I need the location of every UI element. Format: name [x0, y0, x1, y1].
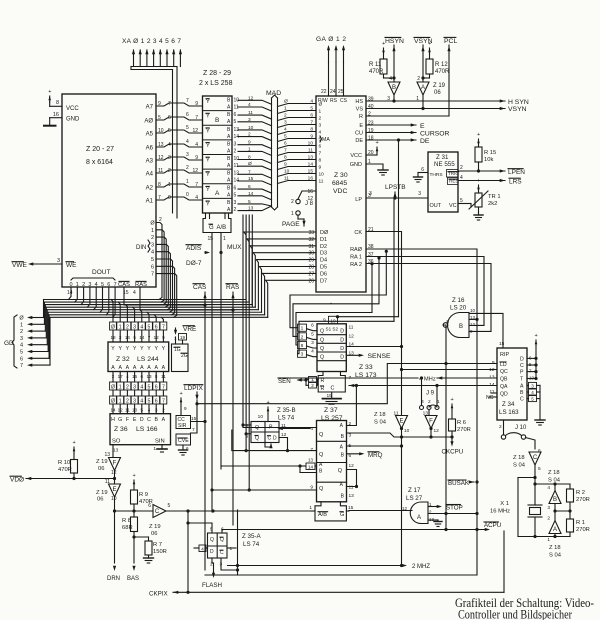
svg-text:Q: Q: [319, 452, 324, 458]
Z33 left input pins: [298, 324, 307, 331]
svg-text:06: 06: [151, 531, 157, 537]
svg-text:5: 5: [141, 408, 144, 413]
svg-text:12: 12: [349, 333, 355, 339]
svg-text:E: E: [112, 487, 116, 493]
svg-text:C: C: [520, 397, 524, 403]
svg-text:D: D: [340, 337, 344, 343]
vertical clock feed wire: [237, 510, 239, 575]
svg-text:RAØ: RAØ: [350, 247, 363, 253]
svg-text:Q: Q: [210, 537, 214, 543]
svg-text:16: 16: [308, 176, 314, 182]
svg-text:12: 12: [192, 128, 198, 134]
svg-text:VWE: VWE: [12, 262, 27, 269]
svg-text:A: A: [421, 85, 425, 91]
wire Z37 Q3 to A4 loop: [347, 470, 357, 487]
svg-text:B: B: [459, 324, 463, 330]
svg-text:BAS: BAS: [127, 576, 139, 582]
svg-text:A: A: [162, 417, 166, 423]
svg-text:D3: D3: [320, 251, 327, 257]
svg-text:2: 2: [168, 168, 171, 174]
svg-text:1G: 1G: [174, 347, 181, 353]
XA bus vertical drop lines: [176, 67, 178, 219]
svg-text:+: +: [451, 397, 454, 403]
svg-text:A4: A4: [146, 172, 154, 178]
svg-text:Q: Q: [319, 432, 324, 438]
svg-text:6: 6: [310, 113, 313, 119]
svg-text:SIR: SIR: [178, 423, 187, 429]
ground symbol: [44, 125, 56, 127]
svg-text:G: G: [209, 225, 214, 231]
svg-text:25: 25: [338, 89, 344, 95]
svg-text:A: A: [147, 365, 151, 371]
svg-text:QD: QD: [500, 392, 508, 398]
svg-text:3: 3: [248, 117, 251, 123]
svg-text:6: 6: [186, 446, 189, 451]
svg-text:10: 10: [319, 172, 325, 178]
svg-text:39: 39: [368, 97, 374, 103]
svg-text:8: 8: [284, 155, 287, 161]
svg-text:3: 3: [311, 340, 314, 346]
wire VWE to WE: [33, 263, 62, 265]
svg-text:+: +: [73, 440, 76, 446]
svg-text:8: 8: [446, 319, 449, 325]
svg-text:3: 3: [547, 505, 550, 511]
wires LS258 B/A inputs to MAD bus: [238, 100, 272, 104]
signal DRN arrow: [113, 566, 116, 571]
svg-text:5: 5: [248, 199, 251, 205]
svg-text:Z 35-B: Z 35-B: [277, 407, 296, 414]
LS244 input pin boxes: [110, 322, 117, 330]
svg-text:A2: A2: [146, 186, 154, 192]
svg-text:11: 11: [284, 176, 289, 182]
svg-text:D: D: [340, 329, 344, 335]
svg-text:28: 28: [308, 265, 314, 271]
Z35-B input wires: [243, 424, 251, 426]
svg-text:Z 18: Z 18: [549, 545, 561, 551]
svg-text:5: 5: [284, 134, 287, 140]
svg-text:+: +: [48, 89, 51, 95]
svg-text:1: 1: [248, 146, 251, 152]
svg-text:CVE: CVE: [178, 438, 189, 444]
wire LPSTB to Z33 D4: [298, 321, 395, 353]
LS163 supply arrow: [535, 340, 538, 344]
data bus left staircase to GD arrows: [43, 300, 45, 318]
svg-text:9: 9: [323, 318, 326, 324]
svg-text:12: 12: [434, 428, 440, 434]
svg-text:4: 4: [186, 139, 189, 145]
wire QD: [491, 392, 497, 394]
svg-text:12: 12: [111, 470, 117, 476]
svg-text:HSYN: HSYN: [385, 38, 404, 45]
svg-text:0: 0: [168, 195, 171, 201]
svg-text:6: 6: [311, 323, 314, 329]
IC Z33 LS173 register: [317, 324, 346, 372]
svg-text:2: 2: [20, 329, 23, 335]
CURSOR output wire: [366, 132, 416, 134]
svg-text:F: F: [113, 461, 117, 467]
Z35-B clock wire pin 11: [279, 428, 310, 430]
svg-text:1: 1: [319, 109, 322, 115]
svg-text:Y: Y: [133, 346, 137, 352]
svg-text:A: A: [154, 365, 158, 371]
svg-text:4: 4: [310, 426, 313, 432]
svg-text:Ø: Ø: [19, 316, 24, 322]
svg-text:5: 5: [234, 192, 237, 198]
svg-text:270R: 270R: [576, 497, 590, 503]
signal BAS arrow: [132, 566, 135, 571]
svg-text:FLASH: FLASH: [202, 582, 222, 589]
svg-text:4: 4: [248, 102, 251, 108]
svg-text:NC: NC: [486, 395, 494, 401]
brace over DOUT pins: [71, 278, 115, 280]
LS258 G/AB select box: [203, 213, 231, 233]
Z30 GND ground wire: [366, 164, 383, 170]
svg-text:H: H: [111, 417, 115, 423]
svg-text:LS 244: LS 244: [137, 356, 159, 363]
svg-text:A: A: [118, 365, 122, 371]
LS20 input wires from RA lines: [469, 318, 477, 320]
svg-text:LS 74: LS 74: [243, 541, 260, 548]
svg-text:7: 7: [186, 98, 189, 104]
svg-text:32: 32: [308, 237, 314, 243]
svg-text:4: 4: [310, 99, 313, 105]
svg-text:WE: WE: [66, 262, 77, 269]
svg-text:CURSOR: CURSOR: [420, 131, 450, 138]
svg-text:Y: Y: [206, 99, 210, 105]
svg-text:+: +: [133, 473, 136, 479]
E inverter output down to 2MHZ line: [401, 437, 403, 566]
svg-text:Q: Q: [320, 346, 324, 352]
VSYN output wire: [366, 108, 505, 110]
svg-text:Y: Y: [118, 346, 122, 352]
svg-text:LD: LD: [500, 362, 507, 368]
GD bus arrows: [32, 317, 44, 319]
svg-text:Y: Y: [154, 346, 158, 352]
resistor R8 68R: [133, 511, 135, 517]
svg-text:DØ: DØ: [320, 230, 329, 236]
wire DE down to Z33 enable: [398, 140, 400, 317]
svg-text:1: 1: [291, 211, 294, 217]
svg-text:DRN: DRN: [107, 576, 120, 582]
Z35-B D wire pin 12 to SIN line: [279, 438, 288, 451]
svg-text:A: A: [417, 515, 421, 521]
net label SEN: [304, 378, 307, 381]
svg-text:8: 8: [301, 343, 304, 349]
svg-text:VDC: VDC: [333, 188, 347, 195]
svg-text:Q: Q: [320, 337, 324, 343]
CAS vertical line: [204, 292, 206, 570]
svg-text:10: 10: [248, 125, 254, 131]
svg-text:26: 26: [308, 278, 314, 284]
svg-text:9: 9: [319, 165, 322, 171]
svg-text:D1: D1: [320, 237, 327, 243]
svg-text:4: 4: [95, 282, 98, 288]
svg-text:6: 6: [234, 112, 237, 118]
svg-text:3: 3: [234, 141, 237, 147]
svg-text:Ø: Ø: [248, 161, 252, 167]
svg-text:R 9: R 9: [139, 492, 148, 498]
svg-text:1: 1: [76, 282, 79, 288]
svg-text:14: 14: [67, 290, 73, 296]
vertical wire from dot line down: [187, 511, 189, 592]
svg-text:R 7: R 7: [153, 542, 162, 548]
svg-text:24: 24: [330, 89, 336, 95]
svg-text:D4: D4: [320, 258, 327, 264]
svg-text:12: 12: [248, 95, 254, 101]
svg-text:C: C: [268, 436, 272, 442]
svg-text:7: 7: [192, 427, 195, 433]
svg-text:Controller und Bildspeicher: Controller und Bildspeicher: [458, 608, 573, 620]
svg-text:VDØ: VDØ: [10, 477, 24, 484]
svg-text:Z 19: Z 19: [149, 524, 161, 530]
resistor R1 270R: [569, 511, 571, 519]
svg-text:D5: D5: [320, 265, 327, 271]
svg-text:A1: A1: [146, 199, 154, 205]
wires Z37 Q outputs to address mux verticals: [243, 427, 317, 429]
svg-text:3: 3: [168, 155, 171, 161]
svg-text:Y: Y: [126, 346, 130, 352]
net label VD0 wire: [26, 478, 115, 480]
svg-text:3: 3: [369, 191, 372, 197]
svg-text:4: 4: [311, 349, 314, 355]
data bus right risers to Z30 D pins: [244, 232, 246, 300]
svg-text:Z 17: Z 17: [408, 487, 421, 494]
svg-text:VCC: VCC: [66, 106, 79, 112]
resistor R10 470R: [73, 447, 76, 451]
LS20 output wire: [443, 325, 446, 530]
data bus: DIN bends from RAM: [156, 223, 162, 300]
svg-text:A/B: A/B: [217, 225, 227, 231]
svg-text:CKCPU: CKCPU: [442, 449, 464, 456]
svg-text:68R: 68R: [122, 525, 133, 531]
data bus horizontal bundle: [44, 299, 247, 301]
svg-text:P: P: [520, 370, 524, 376]
svg-text:E: E: [399, 419, 403, 425]
svg-text:2: 2: [368, 112, 371, 118]
svg-text:GND: GND: [66, 117, 80, 123]
svg-text:1: 1: [153, 446, 156, 452]
svg-text:12: 12: [154, 335, 160, 340]
svg-text:NE 555: NE 555: [434, 161, 455, 168]
resistor R11 470R: [382, 48, 385, 52]
svg-text:D: D: [140, 417, 144, 423]
long wire lower: [205, 574, 477, 576]
svg-text:3: 3: [155, 408, 158, 413]
svg-text:Q: Q: [220, 537, 224, 543]
svg-text:5: 5: [538, 466, 541, 472]
svg-text:3: 3: [57, 258, 60, 264]
svg-text:Q: Q: [255, 436, 259, 442]
XA bus horizontal lines: [131, 66, 177, 68]
svg-text:R: R: [321, 378, 325, 384]
svg-text:4: 4: [133, 290, 136, 296]
svg-text:Q: Q: [319, 486, 324, 492]
svg-text:9: 9: [195, 101, 198, 107]
Z35-A wires: [194, 547, 199, 549]
svg-text:THRS: THRS: [430, 172, 443, 178]
svg-text:5: 5: [311, 331, 314, 337]
svg-text:15: 15: [499, 341, 505, 347]
Z17 pin2 wire to BUSAK line: [428, 513, 477, 515]
svg-text:7: 7: [195, 115, 198, 121]
svg-text:29: 29: [308, 258, 314, 264]
svg-text:2k2: 2k2: [488, 201, 497, 207]
wire RAM RAS pin to RAS line: [140, 288, 233, 310]
svg-text:QC: QC: [500, 369, 508, 375]
resistor R15 10k: [477, 139, 480, 143]
svg-text:3: 3: [151, 242, 154, 248]
STOP arrow and label: [428, 506, 440, 508]
svg-text:270R: 270R: [576, 527, 590, 533]
svg-text:Z 18: Z 18: [374, 412, 386, 418]
signal FLASH: [211, 558, 213, 563]
svg-text:Z 16: Z 16: [452, 297, 465, 304]
IC Z31 NE555 timer: [428, 152, 458, 212]
svg-text:16: 16: [53, 112, 59, 118]
svg-text:5: 5: [234, 119, 237, 125]
svg-text:3: 3: [119, 335, 122, 340]
svg-text:+: +: [477, 178, 480, 184]
svg-text:1: 1: [168, 182, 171, 188]
svg-text:Z 34: Z 34: [502, 401, 515, 408]
svg-text:7: 7: [284, 148, 287, 154]
Z33 R pins boxed: [309, 377, 317, 383]
svg-text:2: 2: [301, 334, 304, 340]
svg-text:CS: CS: [340, 98, 348, 104]
svg-text:12: 12: [118, 408, 124, 413]
svg-text:16 MHz: 16 MHz: [490, 509, 510, 515]
svg-text:Z 20 - 27: Z 20 - 27: [86, 146, 114, 153]
svg-text:F: F: [429, 419, 433, 425]
wire Z37 A2 to CPU clock: [347, 445, 402, 447]
svg-text:13: 13: [349, 493, 355, 499]
svg-text:A: A: [140, 365, 144, 371]
svg-text:27: 27: [308, 271, 314, 277]
svg-text:10: 10: [111, 496, 117, 502]
svg-text:0: 0: [186, 192, 189, 198]
svg-text:10: 10: [284, 169, 290, 175]
svg-text:5: 5: [133, 335, 136, 340]
svg-text:D: D: [520, 356, 524, 362]
svg-text:A: A: [215, 190, 220, 197]
svg-text:10: 10: [404, 428, 410, 434]
svg-text:12: 12: [192, 168, 198, 174]
wire MRQ: [347, 453, 363, 455]
svg-text:CK: CK: [354, 230, 362, 236]
svg-text:Y: Y: [206, 158, 210, 164]
svg-text:C: C: [147, 417, 151, 423]
svg-text:4: 4: [195, 195, 198, 201]
svg-text:9: 9: [248, 140, 251, 146]
svg-text:SIN: SIN: [155, 439, 165, 445]
svg-text:VCC: VCC: [350, 153, 362, 159]
svg-text:MUX: MUX: [227, 244, 242, 251]
net label PCL wire: [448, 45, 450, 116]
svg-text:2: 2: [349, 421, 352, 427]
svg-text:8: 8: [248, 155, 251, 161]
svg-text:1: 1: [20, 322, 23, 328]
svg-text:VC: VC: [449, 203, 457, 209]
Z33 top wire to bus: [330, 302, 332, 304]
resistor R6 270R: [451, 404, 454, 408]
Z17 pin13 ground: [428, 519, 438, 521]
RAS vertical line: [232, 292, 234, 525]
svg-text:14: 14: [248, 191, 254, 197]
svg-text:Ø: Ø: [284, 99, 288, 105]
wire to Z35-A pin5: [188, 522, 212, 524]
wire A/B select to Z37: [221, 465, 300, 467]
svg-text:+: +: [535, 333, 538, 339]
svg-text:SEN: SEN: [278, 378, 291, 385]
svg-text:CAS: CAS: [118, 282, 130, 288]
svg-text:B: B: [553, 497, 557, 503]
IC Z32 LS244 buffer: [108, 342, 169, 372]
svg-text:S 04: S 04: [374, 420, 387, 426]
svg-text:13: 13: [113, 448, 119, 454]
svg-text:1: 1: [284, 106, 287, 112]
svg-text:DE: DE: [355, 138, 363, 144]
wire Z35-A pin6 up to ACPU line: [221, 530, 223, 534]
svg-text:5: 5: [101, 282, 104, 288]
svg-text:16: 16: [125, 335, 131, 340]
svg-text:B: B: [520, 390, 524, 396]
LS166 CC SIR box: [176, 416, 191, 429]
wire RAM CAS pin to CAS line: [124, 288, 205, 305]
svg-text:SO: SO: [112, 439, 121, 445]
taps from data bus to LS244: [111, 300, 113, 323]
svg-text:2: 2: [248, 132, 251, 138]
svg-text:3: 3: [20, 336, 23, 342]
svg-text:37: 37: [368, 252, 374, 258]
svg-text:4: 4: [195, 142, 198, 148]
svg-text:4: 4: [547, 485, 550, 491]
svg-text:LS 163: LS 163: [499, 409, 519, 416]
svg-text:3: 3: [301, 352, 304, 358]
svg-text:S 04: S 04: [549, 553, 562, 559]
svg-text:2: 2: [547, 516, 550, 522]
svg-text:CKPIX: CKPIX: [149, 591, 168, 598]
svg-text:B: B: [392, 85, 396, 91]
svg-text:S 04: S 04: [513, 463, 526, 469]
wire Z37 G pin to Z17: [346, 510, 349, 512]
svg-text:06: 06: [97, 497, 103, 503]
svg-text:7: 7: [310, 447, 313, 453]
svg-text:MRQ: MRQ: [368, 452, 383, 459]
svg-text:7: 7: [168, 101, 171, 107]
svg-text:14: 14: [308, 162, 314, 168]
svg-text:A: A: [162, 365, 166, 371]
wires MAD bus to Z30 MA pins: [278, 104, 317, 107]
wire Z35-A pin3 clock: [221, 558, 238, 570]
svg-text:13: 13: [308, 458, 314, 463]
oscillator feedback left branch: [533, 476, 536, 479]
IC Z34 LS163 counter: [497, 348, 527, 420]
wires RAM A-pins to LS258 Y outputs: [156, 103, 202, 106]
svg-text:Y: Y: [162, 346, 166, 352]
wire LD line to LDPIX: [197, 364, 497, 404]
DE output wire: [366, 139, 416, 141]
svg-text:1: 1: [230, 546, 233, 552]
svg-text:LS 166: LS 166: [136, 426, 158, 433]
vertical wire right loop: [503, 531, 505, 592]
svg-text:+: +: [477, 132, 480, 138]
svg-text:2: 2: [291, 199, 294, 205]
svg-text:11: 11: [319, 179, 324, 185]
svg-text:HS: HS: [355, 99, 363, 105]
svg-text:Z 18: Z 18: [548, 470, 560, 476]
svg-text:4: 4: [389, 76, 392, 82]
svg-text:ACPU: ACPU: [484, 522, 501, 529]
